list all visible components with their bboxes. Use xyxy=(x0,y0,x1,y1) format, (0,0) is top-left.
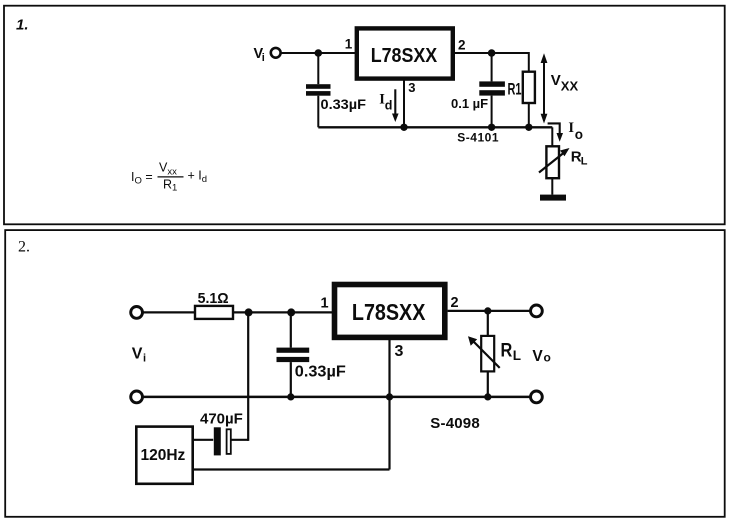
svg-text:1.: 1. xyxy=(16,16,29,33)
svg-text:0.33µF: 0.33µF xyxy=(295,363,346,380)
svg-text:S-4098: S-4098 xyxy=(430,415,480,432)
rheostat RL figure 1 xyxy=(539,127,570,194)
capacitor C2 0.1uF xyxy=(479,53,505,127)
op-amp regulator U1 L78SXX xyxy=(357,28,453,78)
svg-text:S-4101: S-4101 xyxy=(457,131,499,145)
rheostat RL figure 2 xyxy=(468,311,500,397)
svg-text:d: d xyxy=(385,99,393,113)
svg-text:L: L xyxy=(581,155,588,167)
output terminal top circle xyxy=(531,305,543,317)
svg-text:+ Id: + Id xyxy=(188,169,208,186)
wire 120Hz box to pin 3 xyxy=(193,397,390,470)
ground xyxy=(540,195,566,201)
op-amp regulator U2 L78SXX xyxy=(335,285,445,338)
wire pin 2 to output xyxy=(448,310,530,312)
wire pin 3 stem xyxy=(403,79,405,127)
label Vxx xyxy=(551,72,579,94)
junction dot pin 2 node xyxy=(488,49,496,57)
svg-text:V: V xyxy=(551,72,561,89)
figure 2 border frame xyxy=(5,230,725,517)
wire node A down to C3 xyxy=(247,312,249,441)
junction dot RL on rail xyxy=(484,393,491,400)
source 120Hz box xyxy=(136,427,192,484)
svg-text:L: L xyxy=(513,348,521,363)
wire pin 2 to R1 top xyxy=(455,52,529,72)
svg-text:L78SXX: L78SXX xyxy=(371,45,438,67)
junction dot C2 on rail xyxy=(488,124,495,131)
resistor 5.1 ohm xyxy=(195,306,233,319)
junction dot node A xyxy=(245,308,253,316)
node Vi input label xyxy=(254,46,265,64)
resistor R1 xyxy=(523,72,535,128)
junction dot output node xyxy=(484,307,491,314)
svg-text:2.: 2. xyxy=(18,239,30,256)
measurement arrow Vxx xyxy=(541,53,548,123)
label RL figure 1 xyxy=(571,149,588,168)
formula Io = Vxx/R1 + Id xyxy=(131,161,207,194)
svg-text:3: 3 xyxy=(408,80,415,95)
svg-text:1: 1 xyxy=(321,296,329,312)
input terminal top circle xyxy=(131,307,143,319)
label Vo xyxy=(532,348,550,365)
svg-text:470µF: 470µF xyxy=(200,410,243,427)
junction dot C4 on rail xyxy=(287,393,294,400)
capacitor C1 0.33uF xyxy=(306,53,331,127)
svg-text:5.1Ω: 5.1Ω xyxy=(198,290,229,307)
junction dot node B xyxy=(287,308,295,316)
svg-text:0.33µF: 0.33µF xyxy=(321,97,367,112)
svg-text:2: 2 xyxy=(451,295,459,311)
ground rail wire figure 1 xyxy=(318,126,552,128)
svg-text:1: 1 xyxy=(345,37,353,52)
label RL figure 2 xyxy=(501,341,522,364)
svg-text:I: I xyxy=(568,120,574,136)
svg-text:0.1 µF: 0.1 µF xyxy=(451,96,488,111)
svg-text:XX: XX xyxy=(561,79,579,94)
current arrow Id xyxy=(379,89,398,122)
svg-text:2: 2 xyxy=(458,38,466,53)
svg-text:i: i xyxy=(143,353,146,365)
svg-text:120Hz: 120Hz xyxy=(141,447,186,464)
wire input to resistor xyxy=(144,311,196,313)
svg-text:o: o xyxy=(544,351,551,365)
junction dot pin 3 on rail xyxy=(400,124,407,131)
svg-text:i: i xyxy=(262,52,265,64)
svg-text:V: V xyxy=(132,346,143,363)
input terminal bottom circle xyxy=(131,391,143,403)
capacitor C4 0.33uF figure 2 xyxy=(277,312,310,397)
svg-text:R1: R1 xyxy=(163,178,177,194)
node Vi label figure 2 xyxy=(132,346,146,365)
wire resistor to pin 1 xyxy=(233,311,333,313)
svg-text:Vxx: Vxx xyxy=(159,161,177,178)
ground rail wire figure 2 xyxy=(144,396,531,399)
output terminal bottom circle xyxy=(531,391,543,403)
capacitor C3 470uF xyxy=(193,427,249,455)
wire input to pin 1 xyxy=(281,52,356,54)
svg-text:3: 3 xyxy=(395,343,404,360)
junction dot input node xyxy=(315,49,323,57)
svg-text:L78SXX: L78SXX xyxy=(352,299,426,325)
svg-text:R: R xyxy=(501,341,513,362)
wire pin 3 stem figure 2 xyxy=(388,340,390,397)
svg-text:R1: R1 xyxy=(508,81,522,99)
current arrow Io xyxy=(548,120,583,142)
figure 1 border frame xyxy=(4,6,725,225)
svg-text:V: V xyxy=(532,348,543,365)
svg-text:o: o xyxy=(575,127,583,142)
svg-text:IO =: IO = xyxy=(131,170,153,187)
junction dot pin 3 on rail xyxy=(386,393,393,400)
input terminal circle Vi xyxy=(271,48,281,58)
junction dot R1 on rail xyxy=(525,124,532,131)
